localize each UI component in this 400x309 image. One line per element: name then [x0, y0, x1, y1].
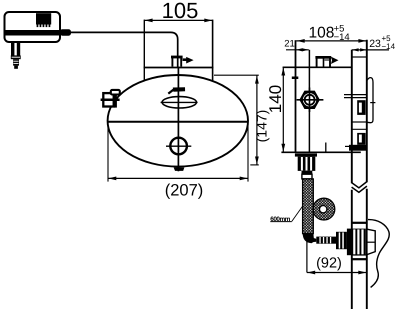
dimension 108 +5 -14	[296, 24, 366, 43]
oval body (front view)	[108, 75, 248, 167]
adapter vent block	[36, 13, 51, 27]
button circle	[166, 138, 191, 155]
wall line at 129	[352, 128, 367, 130]
svg-text:(147): (147)	[254, 110, 270, 143]
adapter cable	[71, 32, 178, 67]
hex fitting (side view)	[297, 88, 324, 113]
wall rung at 255	[352, 254, 367, 256]
dimension (147)	[214, 75, 270, 165]
dimension (92)	[307, 235, 367, 275]
connector nut	[336, 232, 347, 249]
nozzle stem	[302, 171, 313, 179]
cable connector on top (front view)	[171, 56, 194, 67]
wall clip bar	[345, 145, 367, 151]
oval bottom tab	[174, 167, 185, 171]
tick on side box front edge	[292, 77, 299, 80]
sensor window ellipse	[161, 97, 198, 108]
wall clip 1	[357, 100, 365, 115]
escutcheon	[347, 229, 366, 256]
svg-text:(92): (92)	[316, 255, 342, 271]
adapter DC connector	[60, 29, 71, 35]
dimension 105 line	[144, 19, 212, 23]
hose bottom elbow	[303, 233, 315, 243]
nozzle body	[298, 157, 316, 171]
dimension (207)	[108, 125, 248, 200]
rear box left edge / extension	[143, 20, 145, 81]
wall left edge	[351, 50, 353, 183]
power adapter body	[5, 12, 61, 42]
svg-text:−14: −14	[382, 42, 396, 51]
wall broken-out curve	[368, 220, 389, 288]
braided hose vertical	[303, 179, 314, 234]
side box front edge / 108 extension	[295, 40, 297, 152]
oval parting line	[108, 121, 248, 123]
stub inside side box	[325, 143, 327, 153]
adapter plug prongs	[11, 43, 21, 69]
hose coil loop	[313, 198, 335, 220]
svg-text:108: 108	[309, 24, 335, 41]
dimension 21	[284, 39, 309, 52]
hose end tip	[312, 238, 317, 243]
svg-text:(207): (207)	[165, 182, 204, 200]
svg-text:140: 140	[266, 85, 285, 113]
wall right edge	[366, 40, 368, 182]
svg-text:105: 105	[162, 0, 199, 23]
side box top edge / 140 extension	[283, 66, 352, 68]
serrated nipple	[316, 237, 336, 244]
center line vertical	[177, 67, 179, 172]
wall rung at 223	[352, 222, 367, 224]
cable connector on top (side view)	[315, 56, 338, 68]
wall top tick	[352, 56, 367, 58]
wall rung pair	[344, 95, 367, 98]
wall break marks	[352, 182, 367, 193]
small tick on centerline	[173, 87, 185, 92]
left fitting (front view)	[101, 90, 120, 108]
600mm label	[270, 206, 303, 223]
nozzle flange under box	[295, 153, 317, 156]
rear box right edge / extension	[212, 20, 214, 82]
svg-text:21: 21	[284, 39, 295, 50]
rear box top edge	[144, 67, 214, 69]
side box bottom edge / 140 extension	[281, 151, 360, 153]
wall line at 122	[352, 121, 367, 123]
side box internal vertical / 21 extension	[308, 50, 310, 153]
spud behind wall	[367, 229, 375, 254]
dimension 23 +5 -14	[352, 34, 396, 51]
dimension 140 (side view)	[266, 67, 285, 152]
wall clip 2	[357, 133, 365, 145]
adapter dark band	[4, 30, 61, 36]
svg-text:23: 23	[369, 38, 381, 50]
wall bracket hook	[367, 78, 375, 123]
wall rung at 259	[352, 258, 367, 260]
